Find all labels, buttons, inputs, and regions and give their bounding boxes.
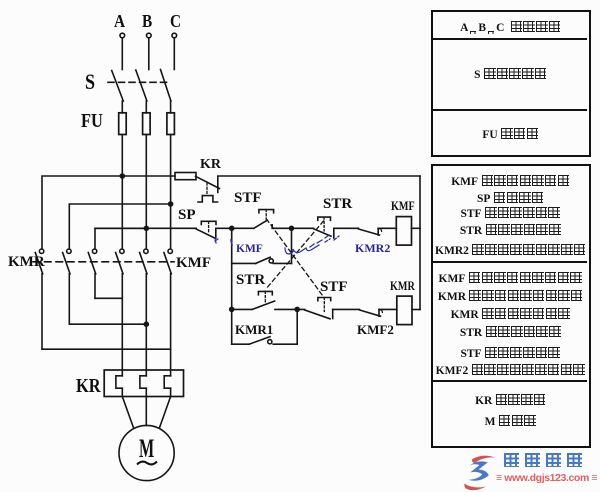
wire KMF contact1 output: [121, 274, 123, 376]
self hold rail left: [232, 262, 256, 264]
self hold rail right: [273, 262, 291, 264]
wire rail SP to STF: [216, 227, 254, 229]
junction bridge B: [144, 322, 148, 326]
KR NC contact blade: [196, 176, 220, 192]
button STF actuator: [259, 210, 274, 220]
wire self hold left drop: [231, 228, 233, 344]
label B: [142, 12, 152, 30]
button STR lower actuator: [258, 291, 272, 303]
watermark title blue: [501, 453, 585, 470]
thermal relay KR contact element: [175, 173, 196, 180]
wire KMF2 to KMR coil: [379, 308, 397, 310]
wire motor lead right: [159, 397, 170, 429]
KR heater element 3: [164, 376, 170, 397]
wire phase B main drop: [145, 135, 147, 249]
node B terminal: [147, 33, 152, 38]
reverse rail STF to KMF2: [333, 308, 360, 310]
legend row4 lines: [433, 175, 588, 188]
label KR top: [200, 158, 221, 172]
motor M circle: [119, 425, 174, 480]
label KMR coil: [390, 279, 415, 292]
watermark logo: [458, 451, 514, 492]
label STF lower: [320, 280, 348, 295]
wire rail to KMR contact 3: [95, 228, 146, 249]
label FU: [81, 111, 103, 131]
control rail SP feed: [95, 227, 196, 229]
junction self hold right: [290, 226, 294, 230]
legend row5 lines: [433, 272, 588, 285]
coil KMF: [396, 217, 411, 246]
control right bus: [419, 176, 421, 310]
label STF top: [234, 191, 262, 206]
switch S pole B blade: [136, 70, 147, 101]
contactor linkage dashed: [33, 261, 174, 263]
legend row1 A B C power: [433, 21, 588, 34]
contactor KMR main contact 2: [63, 249, 72, 274]
junction reverse rail left: [230, 307, 234, 311]
fuse FU phase B: [143, 113, 151, 135]
label KMR bank: [8, 255, 45, 270]
wire phase C drop to switch: [173, 38, 175, 70]
contact KMR2 NC: [359, 228, 382, 235]
button SP NC blade: [196, 228, 216, 238]
button STR actuator: [318, 217, 331, 231]
button STF lower actuator: [318, 298, 331, 312]
coil KMR: [397, 296, 412, 325]
fuse FU phase A: [119, 113, 127, 135]
wire KMR contact1 output: [41, 274, 43, 349]
label A: [114, 12, 125, 30]
wire rail STR to KMR2: [334, 227, 359, 229]
label KR bottom: [76, 376, 101, 396]
contactor KMR main contact 1: [35, 249, 44, 274]
reverse rail to STR button: [232, 308, 253, 310]
motor tilde: [135, 458, 159, 468]
contactor KMR main contact 3: [88, 249, 97, 274]
junction phase A control tap: [120, 174, 124, 178]
label KMF2: [357, 323, 394, 336]
wire bridge KMR3 to phase A: [95, 297, 122, 299]
mechanical link STR dashed: [266, 221, 324, 290]
wire motor lead left: [122, 397, 133, 429]
legend row6 lines: [433, 394, 588, 407]
wire phase A main drop: [121, 135, 123, 249]
label motor M: [139, 436, 154, 462]
button STR NO blade: [252, 301, 274, 309]
KR heater element 2: [140, 376, 146, 397]
wire rail to KMR contact 2: [69, 204, 170, 249]
wire KMR contact2 output: [68, 274, 70, 324]
KR contact actuator: [198, 183, 218, 202]
wire self hold right drop: [291, 228, 293, 263]
label KMF coil: [391, 199, 415, 212]
contact KMF2 NC: [360, 309, 383, 316]
label KMR2 blue: [355, 242, 390, 254]
wire rail to KMR contact 1: [42, 176, 122, 249]
blue ink scribble: [215, 235, 339, 254]
fuse FU phase C: [167, 113, 175, 135]
wire switch B to fuse: [145, 101, 147, 113]
label STR top: [323, 197, 352, 212]
button SP actuator: [201, 221, 216, 233]
wire KMF coil to bus: [412, 227, 421, 229]
wire switch A to fuse: [121, 101, 123, 113]
legend row2 S switch: [433, 68, 588, 81]
wire rail STF to STR: [272, 227, 314, 229]
wire KMF contact2 output: [145, 274, 147, 376]
wire KMR coil to bus: [412, 309, 420, 311]
label SP: [178, 208, 196, 223]
contact KMR1 NO: [249, 337, 272, 345]
reverse rail STR to STF: [275, 308, 305, 310]
KMR1 rail right: [273, 343, 297, 345]
KMR1 rail: [232, 343, 249, 345]
label KMF bank: [176, 256, 211, 271]
contactor KMF main contact 1: [116, 249, 125, 274]
wire switch C to fuse: [170, 101, 172, 113]
button STR NC blade: [314, 228, 334, 238]
contactor KMF main contact 3: [164, 249, 173, 274]
junction self hold left: [230, 226, 234, 230]
wire motor lead middle: [145, 397, 147, 426]
watermark url red: [496, 473, 597, 484]
thermal relay KR box: [104, 370, 183, 397]
label KMR1: [235, 323, 273, 336]
mechanical link STF dashed: [267, 219, 323, 296]
wire KMR2 to KMF coil: [378, 227, 396, 229]
wire KMF contact3 output: [170, 274, 172, 376]
label STR lower: [236, 273, 265, 288]
junction KMR1 right: [295, 307, 299, 311]
switch S linkage dashed: [108, 81, 170, 83]
node C terminal: [172, 33, 177, 38]
contact KMF1 NO self hold: [256, 257, 274, 263]
junction phase C tap: [169, 202, 173, 206]
switch S pole A blade: [112, 71, 124, 102]
wire phase C main drop: [170, 135, 172, 249]
label C: [170, 12, 181, 30]
contactor KMF main contact 2: [140, 249, 148, 274]
wire KMR contact3 output: [94, 274, 96, 299]
junction phase B tap: [144, 226, 148, 230]
wire bridge KMR1 to phase C: [42, 348, 171, 350]
legend row3 FU fuse: [433, 128, 588, 141]
wire bridge KMR2 to phase B: [69, 323, 146, 325]
label KMF1 blue: [236, 244, 263, 256]
label S: [85, 71, 95, 93]
KR heater element 1: [116, 376, 122, 397]
node A terminal: [120, 33, 125, 38]
button STF NO blade: [254, 220, 272, 228]
wire phase B drop to switch: [148, 38, 150, 70]
wire phase A drop to switch: [121, 38, 123, 70]
button STF NC blade: [305, 309, 333, 318]
wire KMR1 right drop: [296, 309, 298, 344]
switch S pole C blade: [161, 70, 171, 102]
control top rail right: [218, 175, 420, 177]
legend table: [431, 10, 591, 157]
control top rail left: [122, 175, 175, 177]
